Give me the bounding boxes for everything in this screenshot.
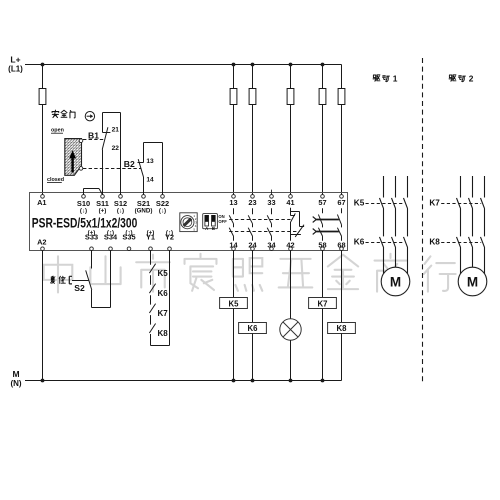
svg-text:(L1): (L1) xyxy=(8,64,23,73)
wire K6 coil to M rail xyxy=(252,334,254,381)
svg-text:42: 42 xyxy=(286,240,294,249)
wire A1 branch lower xyxy=(42,105,44,195)
junction on M rail at lamp xyxy=(289,379,292,382)
node M (N) label xyxy=(10,369,21,388)
terminal 14 xyxy=(232,247,236,251)
terminal Y2 xyxy=(168,247,172,251)
wire 13 branch lower xyxy=(233,105,235,195)
door switch B1 (NC) loop S11-S12 xyxy=(102,113,120,195)
wire K7 coil to M rail xyxy=(322,309,324,381)
mechanical link door to B2 (dashed) xyxy=(83,168,141,170)
link K5 to contacts (dashed) xyxy=(366,203,405,205)
svg-text:K5: K5 xyxy=(158,269,169,278)
terminal 57 xyxy=(321,195,325,199)
label 安全门 (safety door) xyxy=(52,110,75,118)
wire 58 to K7 coil xyxy=(322,251,324,298)
junction on M rail at K5 coil xyxy=(232,379,235,382)
terminal 24 xyxy=(251,247,255,251)
feedback contact chain Y1-Y2 xyxy=(149,251,169,346)
junction on M rail at A2 xyxy=(41,379,44,382)
terminal S34 xyxy=(109,247,113,251)
svg-text:K7: K7 xyxy=(158,309,169,318)
delay linkage bar 2 with chevron xyxy=(316,231,339,233)
svg-text:K6: K6 xyxy=(354,237,365,246)
drive2 phase wire 1 with K7/K8 contacts xyxy=(457,176,461,275)
svg-text:Y2: Y2 xyxy=(165,233,174,242)
contact K7 (NO feedback) xyxy=(149,304,155,325)
junction on M rail at K6 coil xyxy=(251,379,254,382)
wire A1 branch upper xyxy=(42,65,44,89)
svg-text:(+): (+) xyxy=(99,208,107,215)
svg-text:K7: K7 xyxy=(318,299,328,308)
junction on M rail at K7 coil xyxy=(321,379,324,382)
svg-text:closed: closed xyxy=(47,177,64,183)
watermark text 中山市宸熙五金商行 xyxy=(44,254,456,293)
relay NC contact pair 41-42 xyxy=(291,208,305,241)
jumper S10 to S11 xyxy=(84,189,103,195)
svg-text:5: 5 xyxy=(193,227,195,231)
terminal 58 xyxy=(321,247,325,251)
door direction icon (circle with arrow) xyxy=(85,112,94,121)
junction on L+ rail at 57 branch xyxy=(321,63,324,66)
svg-text:14: 14 xyxy=(146,176,154,183)
wire K5 coil to M rail xyxy=(233,309,235,381)
svg-text:M: M xyxy=(390,275,401,290)
link K8 to contacts (dashed) xyxy=(441,242,481,244)
svg-text:24: 24 xyxy=(248,240,257,249)
door movement arrow xyxy=(71,158,73,173)
svg-text:34: 34 xyxy=(267,240,276,249)
junction on L+ rail at 23 branch xyxy=(251,63,254,66)
terminal 23 xyxy=(251,195,255,199)
svg-text:M: M xyxy=(12,369,19,379)
contactor coil K8 xyxy=(328,323,356,334)
safety door symbol (hatched) xyxy=(65,139,82,176)
fuse F4 xyxy=(287,89,294,105)
svg-text:PSR-ESD/5x1/1x2/300: PSR-ESD/5x1/1x2/300 xyxy=(32,215,138,230)
svg-text:1: 1 xyxy=(393,74,398,84)
drive2 phase wire 3 with K7/K8 contacts xyxy=(481,176,485,275)
fuse F6 xyxy=(338,89,345,105)
svg-text:B: B xyxy=(212,226,215,231)
terminal 67 xyxy=(340,195,344,199)
svg-text:K8: K8 xyxy=(429,237,440,246)
svg-text:(N): (N) xyxy=(10,379,21,388)
wire 42 to lamp xyxy=(290,251,292,320)
junction on L+ rail at A1 branch xyxy=(41,63,44,66)
wire 23 branch upper xyxy=(252,65,254,89)
svg-text:open: open xyxy=(51,128,64,134)
svg-text:(↓): (↓) xyxy=(159,208,166,215)
label 驱动 2 (drive 2) xyxy=(449,75,465,82)
svg-text:33: 33 xyxy=(267,198,275,207)
relay contact 33-34 xyxy=(267,208,271,241)
svg-text:K5: K5 xyxy=(229,299,240,308)
fuse F3 xyxy=(249,89,256,105)
wire 67 branch lower xyxy=(341,105,343,195)
wire M return rail xyxy=(25,380,342,382)
label 驱动 1 (drive 1) xyxy=(373,75,389,82)
svg-text:(GND): (GND) xyxy=(135,208,153,215)
wire lamp to M rail xyxy=(290,340,292,380)
node L+ (L1) label xyxy=(8,55,23,74)
door pivot node lower xyxy=(79,167,83,171)
relay contact 13-14 xyxy=(229,208,233,241)
drive1 phase wire 2 with K5/K6 contacts xyxy=(392,176,396,268)
drive1 phase wire 1 with K5/K6 contacts xyxy=(380,176,384,275)
svg-text:14: 14 xyxy=(229,240,238,249)
contact K5 (NO feedback) xyxy=(149,264,155,285)
terminal S22 xyxy=(161,195,165,199)
svg-text:K8: K8 xyxy=(337,324,348,333)
rotary selector switch SW1 xyxy=(180,213,197,232)
drive1 phase wire 3 with K5/K6 contacts xyxy=(404,176,408,275)
label 复位 (reset) xyxy=(51,276,66,283)
svg-text:S35: S35 xyxy=(122,233,135,242)
svg-text:41: 41 xyxy=(286,198,294,207)
svg-text:M: M xyxy=(467,275,478,290)
svg-text:2: 2 xyxy=(469,74,474,84)
svg-text:(↓): (↓) xyxy=(80,208,87,215)
wire 57 branch upper xyxy=(322,65,324,89)
wire L+ supply rail xyxy=(25,64,342,66)
svg-text:Y1: Y1 xyxy=(146,233,155,242)
wire 67 branch upper xyxy=(341,65,343,89)
junction on L+ rail at 41 branch xyxy=(289,63,292,66)
wire 57 branch lower xyxy=(322,105,324,195)
terminal 13 xyxy=(232,195,236,199)
contact K6 (NO feedback) xyxy=(149,284,155,305)
contactor coil K5 xyxy=(220,298,248,309)
terminal 68 xyxy=(340,247,344,251)
link K7 to contacts (dashed) xyxy=(441,203,481,205)
svg-text:K5: K5 xyxy=(354,198,365,207)
relay module U1 PSR-ESD xyxy=(30,193,348,251)
svg-text:A1: A1 xyxy=(37,198,46,207)
terminal 34 xyxy=(270,247,274,251)
svg-text:13: 13 xyxy=(229,198,237,207)
svg-text:S34: S34 xyxy=(104,233,118,242)
reset button S2 (NO) between S33 and S34 xyxy=(69,251,110,308)
terminal 42 xyxy=(289,247,293,251)
fuse F5 xyxy=(319,89,326,105)
terminal Y1 xyxy=(149,247,153,251)
wire 41 branch lower xyxy=(290,105,292,195)
contact K8 (NO feedback) xyxy=(149,324,155,346)
svg-text:67: 67 xyxy=(337,198,345,207)
terminal A2 xyxy=(41,247,45,251)
terminal S21 xyxy=(142,195,146,199)
terminal S35 xyxy=(127,247,131,251)
terminal S11 xyxy=(101,195,105,199)
contactor coil K6 xyxy=(239,323,267,334)
mechanical linkage row 2 (dashed) xyxy=(229,231,300,233)
wire 41 branch upper xyxy=(290,65,292,89)
svg-text:(↓): (↓) xyxy=(117,208,124,215)
S2 actuator xyxy=(69,276,72,284)
svg-text:B2: B2 xyxy=(124,159,135,169)
svg-text:S2: S2 xyxy=(74,283,85,293)
svg-text:21: 21 xyxy=(112,126,120,133)
terminal S12 xyxy=(119,195,123,199)
wire 14 to K5 coil xyxy=(233,251,235,298)
wire Y1 down xyxy=(150,251,152,265)
fuse F1 xyxy=(39,89,46,105)
motor M1 xyxy=(381,267,410,296)
svg-text:K6: K6 xyxy=(158,289,169,298)
svg-text:K7: K7 xyxy=(429,198,440,207)
fuse F2 xyxy=(230,89,237,105)
svg-text:S33: S33 xyxy=(85,233,98,242)
wire 13 branch upper xyxy=(233,65,235,89)
svg-text:58: 58 xyxy=(318,240,326,249)
terminal 41 xyxy=(289,195,293,199)
mechanical linkage row 1 (dashed) xyxy=(229,219,290,221)
svg-text:68: 68 xyxy=(337,240,345,249)
relay contact 23-24 xyxy=(248,208,252,241)
link K6 to contacts (dashed) xyxy=(366,242,405,244)
separator between drives (dashed) xyxy=(422,58,424,382)
svg-text:B1: B1 xyxy=(88,131,99,141)
contactor coil K7 xyxy=(309,298,337,309)
svg-text:13: 13 xyxy=(146,158,154,165)
delayed relay contact 67-68 xyxy=(337,208,341,241)
svg-text:57: 57 xyxy=(318,198,326,207)
wire A2 to M rail xyxy=(42,251,44,381)
wire 23 branch lower xyxy=(252,105,254,195)
svg-text:K8: K8 xyxy=(158,329,169,338)
terminal S33 xyxy=(90,247,94,251)
terminal 33 with stub xyxy=(271,190,273,195)
door switch B2 (NC) loop S21-S22 xyxy=(138,143,163,195)
wire 68 to K8 coil xyxy=(341,251,343,323)
terminal S10 xyxy=(82,195,86,199)
wire K8 coil to M rail xyxy=(341,334,343,381)
svg-text:23: 23 xyxy=(248,198,256,207)
DIP switch SW2 A/B xyxy=(203,214,218,229)
terminal A1 xyxy=(41,195,45,199)
drive2 phase wire 2 with K7/K8 contacts xyxy=(469,176,473,268)
svg-text:OFF: OFF xyxy=(218,219,227,224)
motor M2 xyxy=(458,267,487,296)
indicator lamp H1 xyxy=(280,319,301,340)
door pivot node upper xyxy=(79,139,83,143)
svg-text:L+: L+ xyxy=(10,55,20,65)
svg-text:22: 22 xyxy=(112,145,120,152)
delay linkage bar 1 with chevron xyxy=(316,219,339,221)
wire 24 to K6 coil xyxy=(252,251,254,323)
delayed relay contact 57-58 xyxy=(318,208,322,241)
svg-text:A2: A2 xyxy=(37,237,46,246)
svg-text:K6: K6 xyxy=(248,324,259,333)
mechanical link door to B1 (dashed) xyxy=(83,139,104,141)
wire chain bottom to Y2 xyxy=(151,251,170,346)
junction on L+ rail at 13 branch xyxy=(232,63,235,66)
